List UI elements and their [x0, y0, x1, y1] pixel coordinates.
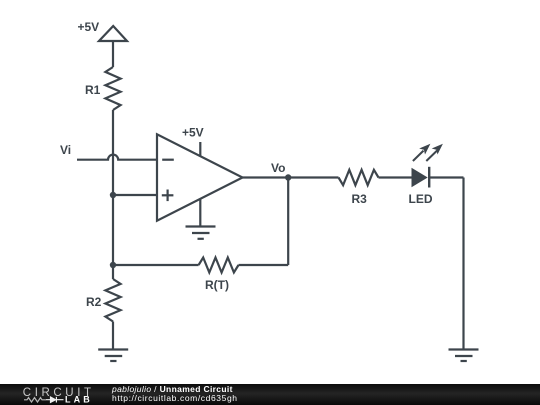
svg-text:R3: R3 — [352, 192, 368, 206]
resistor R3 — [339, 170, 379, 206]
CircuitLab logo — [0, 384, 100, 405]
wire LED to right rail — [429, 176, 463, 178]
wire right rail down — [462, 178, 464, 350]
op-amp U1 — [157, 126, 243, 227]
wire feedback right segment — [239, 264, 289, 266]
svg-text:+5V: +5V — [182, 126, 204, 140]
svg-text:LAB: LAB — [65, 395, 93, 405]
svg-text:Vi: Vi — [60, 143, 71, 157]
svg-text:LED: LED — [409, 192, 433, 206]
svg-text:Vo: Vo — [271, 161, 285, 175]
svg-text:R(T): R(T) — [205, 278, 229, 292]
ground bottom left — [98, 350, 128, 362]
resistor R2 — [86, 279, 121, 322]
wire: main vertical from R1 down to R2 — [112, 110, 114, 279]
ground bottom right — [449, 350, 479, 362]
wire R2 to ground — [112, 322, 114, 350]
ground under op-amp — [186, 227, 216, 239]
resistor R1 — [85, 67, 121, 110]
junction node at inverting divider — [110, 192, 116, 198]
LED D1 — [409, 144, 443, 206]
power supply +5V symbol top left — [78, 20, 128, 41]
wire Vo node down to feedback — [287, 178, 289, 266]
junction node at feedback/divider — [110, 262, 116, 268]
footer credit line — [112, 385, 233, 394]
wire from +5V to R1 — [112, 41, 114, 67]
svg-text:R1: R1 — [85, 83, 101, 97]
footer bar — [0, 384, 540, 405]
wire to op-amp non-inverting input — [113, 194, 157, 196]
node Vo — [271, 161, 291, 181]
wire op-amp output to R3 — [243, 176, 339, 178]
wire R3 to LED — [379, 176, 412, 178]
svg-text:R2: R2 — [86, 295, 102, 309]
wire feedback left segment — [113, 264, 199, 266]
wire Vi to op-amp inverting input with hop over vertical wire — [77, 155, 157, 160]
resistor R(T) — [199, 258, 239, 293]
footer url line — [112, 394, 238, 403]
svg-text:+5V: +5V — [78, 20, 100, 34]
